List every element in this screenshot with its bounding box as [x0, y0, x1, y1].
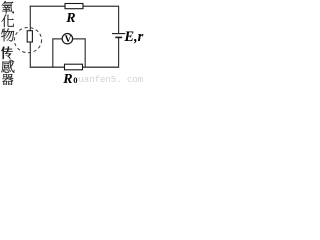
- label: Chinese char 物 (oxide sensor caption): [1, 28, 14, 41]
- voltmeter V: left stub wire: [53, 39, 62, 67]
- resistor R (top, box): [65, 4, 83, 9]
- label: Chinese char 感 (oxide sensor caption): [1, 60, 14, 73]
- oxide sensor: dashed ellipse enclosure: [14, 27, 41, 52]
- battery E,r : short plate: [115, 36, 122, 38]
- oxide sensor: component box on left wire: [27, 31, 32, 42]
- svg-text:R: R: [62, 72, 72, 85]
- background: [0, 0, 145, 85]
- svg-text:V: V: [65, 35, 72, 45]
- wire: bottom side of loop: [30, 66, 119, 68]
- label: Chinese char 化 (oxide sensor caption): [1, 14, 14, 27]
- battery E,r : long plate: [112, 33, 125, 35]
- wire: top side of loop: [30, 5, 119, 7]
- label: Chinese char 传 (oxide sensor caption): [1, 47, 12, 60]
- resistor R0 (bottom, box): [65, 64, 83, 70]
- voltmeter V: right stub wire: [73, 39, 86, 67]
- label: Chinese char 氧 (oxide sensor caption): [2, 1, 14, 14]
- label: Chinese char 器 (oxide sensor caption): [2, 74, 13, 85]
- svg-text:R: R: [65, 11, 75, 26]
- wire: left side of loop: [29, 6, 31, 68]
- svg-text:E,r: E,r: [123, 29, 143, 45]
- wire: right side, below battery: [118, 37, 120, 67]
- wire: right side, above battery: [118, 6, 120, 33]
- svg-text:0: 0: [73, 75, 77, 85]
- svg-text:uanfen5. com: uanfen5. com: [78, 75, 143, 85]
- voltmeter V: circle: [62, 34, 72, 44]
